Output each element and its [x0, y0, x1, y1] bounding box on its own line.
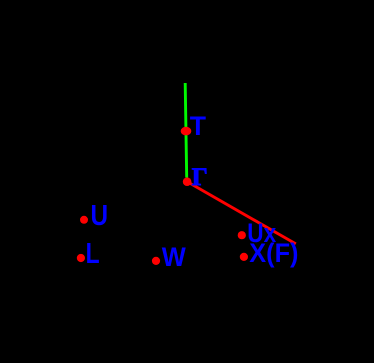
node Gamma marker [183, 177, 192, 186]
node T marker [181, 127, 192, 136]
node W marker [152, 257, 160, 265]
svg-text:W: W [162, 241, 186, 272]
svg-text:X(F): X(F) [249, 240, 298, 269]
svg-text:L: L [86, 239, 100, 270]
svg-text:U: U [91, 199, 109, 231]
node U marker [80, 216, 88, 224]
wire: green path segment from top through T to Gamma [185, 83, 187, 178]
node L marker [77, 254, 85, 262]
wire: red path segment from Gamma to X(F) [187, 182, 295, 244]
svg-text:Γ: Γ [192, 162, 208, 191]
svg-text:T: T [190, 111, 207, 141]
node Ux marker [238, 231, 246, 239]
node X(F) marker [240, 253, 248, 261]
